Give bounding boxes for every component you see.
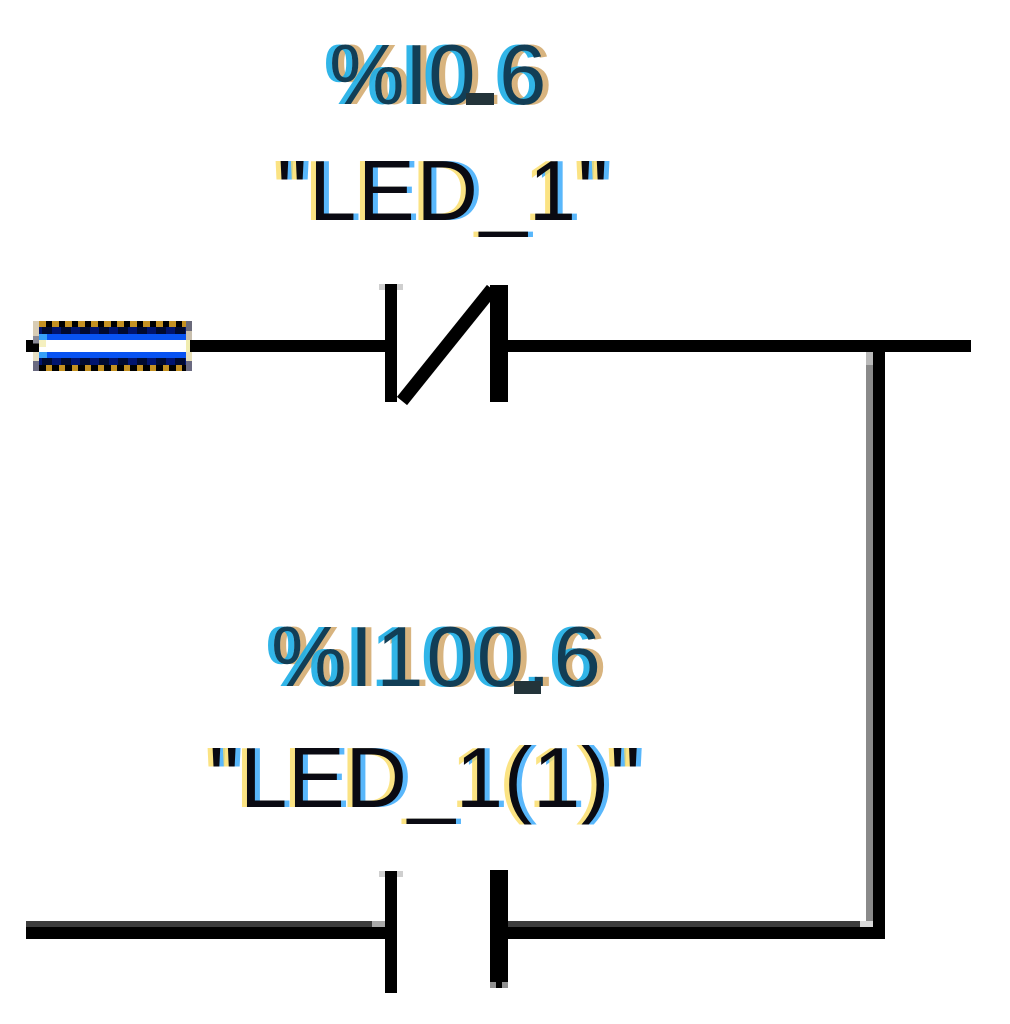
NO contact wire AA light block before left bar (372, 921, 385, 927)
NO contact "LED_1(1)" left bar (385, 871, 397, 993)
NC contact "LED_1" left bar (385, 284, 397, 402)
wire from blue segment to NC contact (190, 340, 385, 352)
branch vertical wire gray edge (866, 352, 873, 921)
NO contact right bar bottom AA blocks (490, 982, 496, 988)
branch corner light block (860, 921, 873, 927)
node label %I100.6 (271, 615, 604, 700)
hide gray edge across NO contact gap (397, 921, 490, 927)
branch vertical wire (873, 352, 885, 939)
node label %I0.6 (329, 33, 546, 118)
dot bar of %I0.6 (466, 93, 494, 105)
node label "LED_1(1)" (209, 736, 641, 821)
wire from NC contact to branch and right (508, 340, 971, 352)
NO contact right bar (490, 870, 508, 988)
node label "LED_1" (277, 149, 610, 234)
selected wire segment (blue highlight box) (33, 321, 192, 371)
bottom rung wire right of NO contact (508, 927, 885, 939)
NO contact left bar AA nubs (379, 871, 385, 877)
dot bar of %I100.6 (514, 681, 541, 694)
wire left stub top rung (26, 340, 40, 352)
NC contact left bar AA nubs (379, 284, 385, 290)
NC contact right bar (490, 285, 508, 402)
bottom rung wire left of NO contact (26, 927, 385, 939)
bottom rung wire gray top edge (26, 921, 860, 927)
